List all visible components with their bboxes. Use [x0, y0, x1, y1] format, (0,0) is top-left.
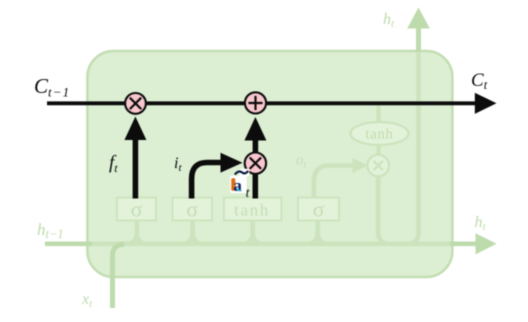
- wire: h_t output to right (medium green): [450, 242, 477, 247]
- broken glyph white blob behind tilde: [239, 169, 249, 177]
- svg-text:σ: σ: [186, 197, 198, 222]
- svg-text:ht: ht: [475, 214, 487, 233]
- broken glyph cyan accents: [237, 189, 241, 191]
- gate box sigma2: [173, 198, 213, 221]
- multiply node on C line: [125, 93, 146, 114]
- tilde over broken glyph: [235, 171, 248, 175]
- svg-text:ht: ht: [383, 11, 395, 30]
- arrow: second multiply up into plus (black): [253, 139, 259, 154]
- wire: h_t output to top (medium green): [416, 27, 421, 52]
- wire: gate stem at x=192.6: [182, 222, 193, 244]
- svg-text:xt: xt: [81, 291, 93, 310]
- wire: h_{t-1} input line (medium green): [45, 242, 92, 247]
- second multiply node: [245, 153, 266, 174]
- wire: gate stem at x=317.6: [307, 222, 318, 244]
- wire: tanh ellipse to output multiply (faded): [376, 144, 380, 156]
- gate box sigma3: [298, 198, 339, 221]
- svg-text:σ: σ: [313, 197, 325, 222]
- wire: gate stem at x=252.7: [242, 222, 253, 244]
- wire: C line branch down to tanh ellipse (faded): [376, 105, 380, 123]
- broken C-tilde glyph: white box: [230, 176, 246, 193]
- gate box tanh: [224, 198, 282, 221]
- broken glyph orange band: [231, 178, 235, 191]
- svg-text:tanh: tanh: [234, 201, 270, 220]
- wire: x_t input line (medium green): [113, 244, 125, 308]
- tanh ellipse (faded): [351, 122, 409, 145]
- wire: tanh gate up into second multiply (black stub): [253, 174, 259, 199]
- plus node on C line: [245, 92, 266, 113]
- svg-text:Ct: Ct: [471, 70, 488, 92]
- svg-text:σ: σ: [131, 197, 143, 222]
- output multiply circle (faded): [367, 155, 389, 177]
- LSTM cell body (green rounded rect): [87, 51, 452, 277]
- svg-text:ht−1: ht−1: [37, 220, 64, 241]
- wire: gate stem at x=136.9: [126, 222, 137, 244]
- svg-text:tanh: tanh: [365, 127, 393, 143]
- arrow: i_t path into second multiply (black): [192, 163, 222, 199]
- wire: output multiply down to h line (faded): [378, 176, 390, 244]
- svg-text:Ct−1: Ct−1: [34, 74, 70, 100]
- wire: h-top branch inside cell (faded): [408, 51, 419, 244]
- wire: o_t path from sigma3 up to multiply (faded arrow): [314, 166, 353, 199]
- arrow: f_t into first multiply (black): [133, 138, 139, 199]
- gate box sigma1: [117, 198, 156, 221]
- wire: h line inside cell (faded): [90, 242, 453, 247]
- svg-text:a: a: [233, 176, 242, 195]
- wire: C cell-state line (black): [47, 101, 477, 105]
